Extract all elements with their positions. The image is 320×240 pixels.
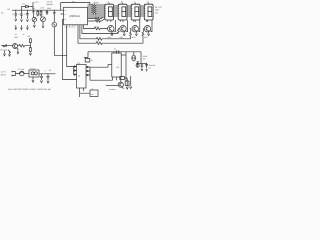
wire vertical x141 [140, 52, 142, 64]
svg-text:20pF: 20pF [47, 7, 52, 10]
capacitor C1 drop [15, 10, 17, 18]
transistor Q5 driver4 [144, 26, 150, 32]
svg-text:22: 22 [12, 13, 14, 16]
trimmer capacitor C5 [41, 17, 46, 22]
resistor R2 box [40, 10, 42, 17]
svg-text:+12: +12 [116, 66, 119, 69]
wire IC left pin drop [63, 19, 77, 79]
ground C8 [40, 80, 42, 82]
IC U1 MM5314 [64, 7, 88, 25]
resistor Rs6b lower [88, 17, 104, 20]
node small marks row [15, 25, 28, 29]
svg-text:MM5314: MM5314 [70, 15, 81, 18]
capacitor C9 [47, 74, 50, 81]
svg-text:F1 1/4A: F1 1/4A [18, 68, 25, 71]
resistor Rb3 [96, 29, 131, 40]
svg-text:+12V: +12V [34, 1, 39, 4]
svg-text:9V: 9V [49, 69, 52, 72]
ground arrow C4 [33, 25, 35, 27]
resistor Rs6 segment [88, 14, 105, 16]
wire emitter drv3 [135, 31, 137, 34]
ground arrow C3 [26, 20, 28, 22]
wire U2 bottom pins [80, 88, 91, 97]
wire U2 output line [90, 79, 112, 81]
pin ticks m2 [118, 6, 121, 16]
svg-text:13: 13 [64, 18, 66, 21]
svg-text:.01: .01 [114, 48, 117, 51]
resistor R6 box [85, 59, 90, 63]
svg-text:117 V: 117 V [1, 71, 7, 74]
svg-text:7 8 9 10 11 12: 7 8 9 10 11 12 [65, 25, 76, 28]
ground C9 [47, 81, 49, 83]
svg-text:(4): (4) [155, 11, 158, 14]
svg-text:500uF: 500uF [143, 55, 149, 58]
crystal Y1 circle [52, 22, 57, 27]
pin left stubs [61, 14, 64, 19]
svg-text:2N2: 2N2 [15, 36, 18, 39]
wire emitter drv4 [148, 31, 150, 34]
resistor R5 vertical [30, 46, 32, 53]
svg-text:1K: 1K [91, 59, 94, 62]
trimmer capacitor C4 [32, 17, 36, 21]
svg-text:timeset: timeset [47, 3, 54, 6]
ground x131 [130, 86, 132, 88]
capacitor C12 [136, 64, 139, 67]
svg-text:.01: .01 [15, 33, 17, 36]
resistor Rs3 segment [88, 8, 105, 10]
resistor R4 vertical [30, 38, 32, 46]
wire lower cluster link [136, 63, 147, 65]
part small box bottom [125, 81, 129, 86]
svg-text:.02: .02 [22, 33, 24, 36]
svg-text:MPS: MPS [144, 36, 149, 39]
ground arrow C2 [21, 20, 23, 22]
transistor Q2 driver1 [108, 26, 114, 32]
wire left drop of rail [84, 52, 88, 58]
capacitor C4a bars [32, 10, 34, 17]
wire IC bottom pin 1 drop [67, 26, 74, 67]
svg-text:IC1: IC1 [72, 0, 76, 3]
svg-text:150(7): 150(7) [93, 2, 99, 5]
resistor R7 box [120, 77, 127, 80]
svg-text:53: 53 [78, 75, 80, 78]
transistor Q3 driver2 [120, 26, 126, 32]
display DIS4 [144, 4, 153, 20]
capacitor C6 [46, 10, 48, 15]
resistor Rs4 segment [88, 10, 105, 12]
ground R5 [29, 53, 31, 55]
wire collector drv3 [134, 20, 140, 32]
wire top +V rail [61, 3, 90, 6]
capacitor C10 on rail [117, 50, 119, 53]
svg-text:ALL RESISTORS 1/4W. CAPS IN uF: ALL RESISTORS 1/4W. CAPS IN uF [8, 88, 52, 91]
wire emitter drv2 [123, 31, 125, 34]
wire diode right drop [32, 2, 34, 10]
part colon box [90, 90, 98, 97]
pin ticks m1 [104, 6, 107, 16]
ground drv2 [123, 34, 125, 36]
svg-text:slow set: slow set [0, 49, 7, 52]
wire digit line 3 [80, 26, 97, 39]
wire rail drop [60, 3, 62, 11]
junction dots on rail [15, 9, 54, 12]
svg-text:T1 12V: T1 12V [30, 68, 37, 71]
resistor Rb1 [95, 27, 108, 30]
wire long vertical left [54, 27, 66, 55]
resistor Rs5 segment [88, 12, 105, 14]
capacitor C13 [141, 64, 143, 71]
svg-text:+12: +12 [27, 35, 30, 38]
ground arrow C1 [15, 19, 17, 21]
svg-text:MPS: MPS [132, 36, 137, 39]
transformer T1 [29, 70, 39, 77]
diode D3 [146, 63, 148, 72]
svg-text:1N4148: 1N4148 [149, 64, 155, 67]
ground drv1 [111, 34, 113, 36]
wire tick at y64.5 [108, 64, 112, 66]
wire collector drv4 [147, 20, 152, 32]
display DIS2 [118, 4, 127, 20]
wire x127 vertical [126, 78, 128, 87]
svg-text:47: 47 [24, 13, 26, 16]
IC U3 box [112, 53, 121, 77]
ground drv4 [148, 34, 150, 36]
resistor R1 box [37, 10, 39, 16]
svg-text:to alarm: to alarm [109, 88, 116, 91]
svg-text:10: 10 [18, 13, 20, 16]
wire collector drv1 [107, 20, 115, 32]
ground drv3 [135, 34, 137, 36]
wire emitter drv1 [111, 31, 113, 34]
pin ticks m3 [131, 6, 134, 16]
ground arrow C5 [42, 26, 44, 28]
ground arrow sw1 [4, 50, 6, 55]
wire Q6 collector [120, 78, 121, 82]
capacitor C3 drop [26, 10, 28, 19]
display DIS1 [105, 4, 114, 20]
svg-text:+: + [45, 69, 47, 72]
wire IC3 bottom pin [112, 77, 117, 80]
svg-text:4.7M: 4.7M [40, 6, 44, 9]
capacitor C8 [40, 74, 43, 80]
wire supply line [39, 73, 56, 75]
wire IC3 right pin [121, 54, 126, 56]
wire ladder m3-m4 [140, 6, 144, 16]
capacitor C7 feeds long vertical [53, 10, 55, 22]
ground arrow sw2 [9, 51, 11, 56]
svg-text:60 Hz: 60 Hz [1, 74, 6, 77]
capacitor C11 electrolytic [132, 55, 136, 61]
wire U2 right pins [86, 67, 90, 80]
diode D2 [137, 61, 139, 64]
wire bottom-right top rail [88, 51, 141, 53]
transistor Q4 driver3 [132, 26, 138, 32]
IC U2 [77, 65, 87, 89]
diode pins left of U2 [74, 67, 77, 75]
svg-text:60: 60 [8, 8, 11, 11]
pin ticks m4 [144, 6, 147, 16]
resistor Rs2 segment [88, 6, 105, 8]
svg-text:b1: b1 [92, 87, 94, 90]
wire Q6 emitter [122, 87, 123, 89]
resistor Rb4 [96, 29, 144, 45]
wire U2 +12 feed line [90, 65, 108, 68]
capacitor C2 drop [20, 10, 22, 19]
svg-text:15: 15 [64, 13, 66, 16]
svg-text:+5: +5 [88, 1, 91, 4]
diode D1 [22, 5, 34, 10]
transistor Q6 [118, 82, 123, 87]
svg-text:DL-747: DL-747 [155, 6, 163, 9]
resistor Rs1 segment [88, 4, 105, 6]
svg-text:cath.: cath. [155, 9, 160, 12]
wire digit line 2 [82, 26, 120, 34]
resistor Rs7b lower [88, 19, 105, 23]
wire digit line 4 [78, 26, 96, 43]
wire base line Q6 [106, 85, 118, 87]
switch S2 [8, 50, 11, 53]
junction dot R4R5 [29, 44, 32, 47]
wire collector drv2 [121, 20, 128, 32]
wire vertical x126 [125, 52, 127, 81]
svg-text:56k: 56k [32, 7, 35, 10]
switch S1 [1, 45, 3, 47]
svg-text:Hz: Hz [1, 12, 3, 15]
display DIS3 [131, 4, 140, 20]
resistor Rs7 segment [88, 16, 105, 18]
wire main top-left rail [12, 9, 64, 11]
svg-text:IC2: IC2 [77, 62, 80, 65]
resistor R3 [18, 44, 31, 47]
svg-text:set: set [91, 93, 94, 96]
wire fuse to T1 [24, 73, 29, 75]
ground T1 [32, 77, 34, 82]
wire ladder m2-m3 [127, 6, 131, 16]
wire digit line 1 [84, 26, 95, 29]
transistor Q1 [13, 44, 18, 49]
power plug prongs [12, 72, 20, 76]
wire x131 vertical [130, 76, 132, 86]
svg-text:16V: 16V [143, 57, 147, 60]
pin stubs bottom [67, 25, 84, 26]
svg-text:16: 16 [64, 9, 66, 12]
ground x127 [126, 87, 128, 89]
wire ladder m1-m2 [114, 6, 119, 16]
svg-text:(2): (2) [149, 67, 152, 70]
wire IC3 top pins [114, 52, 119, 53]
fuse F1 [20, 71, 25, 76]
wire Q1 emitter drop [17, 49, 19, 54]
